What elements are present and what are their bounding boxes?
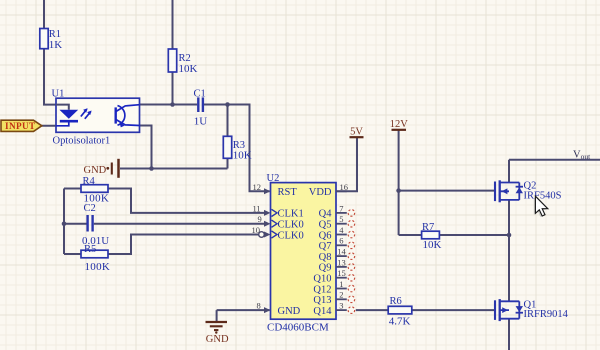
svg-text:10K: 10K	[233, 150, 252, 162]
svg-text:14: 14	[337, 247, 346, 257]
svg-text:IRFR9014: IRFR9014	[524, 309, 569, 320]
svg-text:CLK1: CLK1	[278, 209, 304, 220]
svg-text:Q6: Q6	[319, 230, 332, 241]
svg-text:R5: R5	[84, 244, 96, 255]
svg-text:2: 2	[339, 290, 343, 300]
svg-text:5: 5	[339, 214, 343, 224]
svg-text:Q14: Q14	[313, 306, 332, 317]
svg-text:4.7K: 4.7K	[389, 316, 411, 328]
svg-text:CLK0: CLK0	[278, 230, 304, 241]
svg-text:IRF540S: IRF540S	[524, 190, 562, 201]
svg-text:9: 9	[258, 214, 262, 224]
svg-text:Q4: Q4	[319, 209, 333, 220]
svg-text:7: 7	[339, 203, 343, 213]
svg-text:11: 11	[253, 203, 261, 213]
svg-text:16: 16	[340, 182, 349, 192]
svg-text:1U: 1U	[194, 116, 208, 128]
svg-text:1K: 1K	[49, 39, 63, 51]
svg-text:GND: GND	[206, 334, 229, 345]
svg-text:Vout: Vout	[573, 150, 591, 162]
svg-text:U1: U1	[52, 89, 65, 100]
svg-text:10: 10	[252, 225, 261, 235]
svg-text:15: 15	[337, 268, 346, 278]
svg-text:Q10: Q10	[313, 274, 331, 285]
svg-text:VDD: VDD	[309, 187, 332, 198]
svg-text:12: 12	[253, 182, 262, 192]
svg-text:CD4060BCM: CD4060BCM	[267, 322, 329, 334]
svg-text:GND: GND	[84, 165, 107, 176]
svg-text:8: 8	[257, 301, 261, 311]
svg-text:4: 4	[339, 225, 344, 235]
svg-text:12V: 12V	[390, 119, 409, 130]
svg-text:100K: 100K	[85, 261, 111, 273]
svg-text:INPUT: INPUT	[5, 121, 36, 131]
svg-text:R6: R6	[390, 296, 402, 307]
svg-text:Q7: Q7	[319, 241, 332, 252]
svg-text:13: 13	[337, 257, 346, 267]
svg-text:10K: 10K	[179, 63, 198, 75]
svg-text:R7: R7	[422, 222, 434, 233]
svg-text:GND: GND	[278, 306, 301, 317]
svg-text:R4: R4	[83, 176, 96, 187]
svg-text:Q13: Q13	[313, 295, 331, 306]
svg-text:C1: C1	[194, 89, 206, 100]
svg-text:RST: RST	[278, 187, 298, 198]
svg-text:CLK0: CLK0	[278, 220, 304, 231]
svg-text:3: 3	[339, 301, 343, 311]
svg-text:Q5: Q5	[319, 220, 332, 231]
svg-text:Q8: Q8	[319, 252, 332, 263]
svg-text:5V: 5V	[350, 127, 363, 138]
svg-text:U2: U2	[267, 173, 280, 184]
svg-text:C2: C2	[84, 203, 96, 214]
svg-text:Q9: Q9	[319, 263, 332, 274]
svg-text:Q12: Q12	[313, 284, 331, 295]
svg-text:6: 6	[339, 236, 343, 246]
svg-text:Optoisolator1: Optoisolator1	[53, 136, 111, 147]
svg-text:10K: 10K	[423, 239, 442, 251]
svg-text:1: 1	[339, 279, 343, 289]
